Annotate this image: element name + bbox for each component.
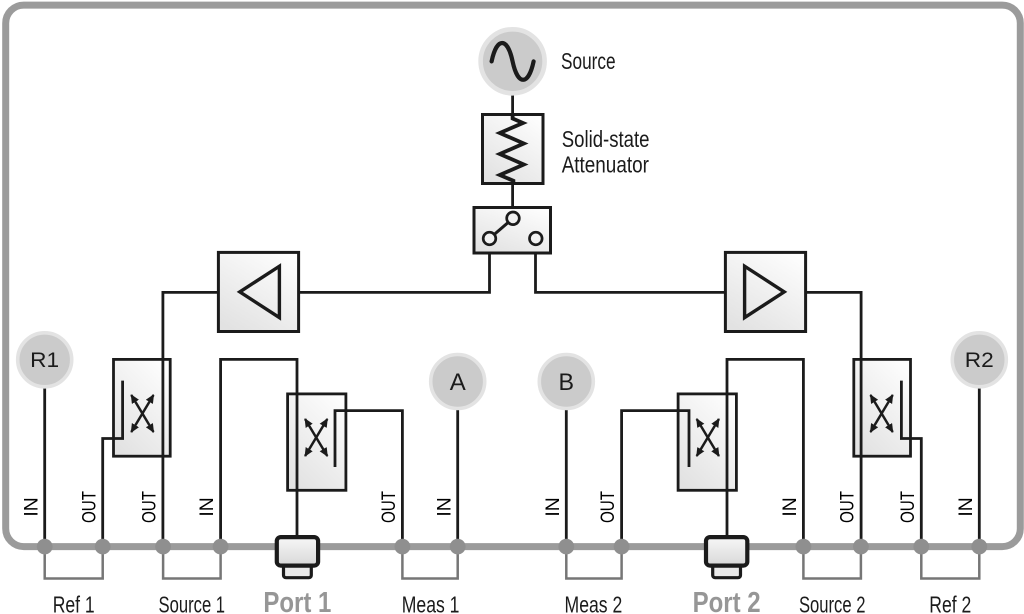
svg-text:IN: IN xyxy=(542,497,564,516)
svg-text:OUT: OUT xyxy=(378,491,400,523)
svg-text:B: B xyxy=(559,369,575,396)
svg-text:OUT: OUT xyxy=(597,491,619,523)
svg-text:OUT: OUT xyxy=(139,491,161,523)
svg-text:R1: R1 xyxy=(30,349,59,372)
svg-text:Source 2: Source 2 xyxy=(799,591,866,614)
svg-text:Meas 1: Meas 1 xyxy=(402,591,460,614)
svg-text:Solid-state: Solid-state xyxy=(562,126,650,152)
svg-text:Source 1: Source 1 xyxy=(159,591,226,614)
svg-text:Meas 2: Meas 2 xyxy=(565,591,623,614)
svg-text:IN: IN xyxy=(955,497,977,516)
svg-text:Ref 2: Ref 2 xyxy=(929,591,971,614)
svg-text:R2: R2 xyxy=(965,349,994,372)
svg-text:IN: IN xyxy=(779,497,801,516)
svg-text:Port 2: Port 2 xyxy=(693,587,761,614)
svg-text:OUT: OUT xyxy=(837,491,859,523)
svg-text:IN: IN xyxy=(196,497,218,516)
svg-text:Ref 1: Ref 1 xyxy=(53,591,95,614)
svg-text:IN: IN xyxy=(433,497,455,516)
svg-text:Source: Source xyxy=(561,48,616,74)
svg-text:OUT: OUT xyxy=(897,491,919,523)
svg-text:OUT: OUT xyxy=(78,491,100,523)
svg-text:Port 1: Port 1 xyxy=(263,587,331,614)
svg-text:IN: IN xyxy=(20,497,42,516)
svg-text:A: A xyxy=(450,369,466,396)
svg-text:Attenuator: Attenuator xyxy=(562,151,649,177)
